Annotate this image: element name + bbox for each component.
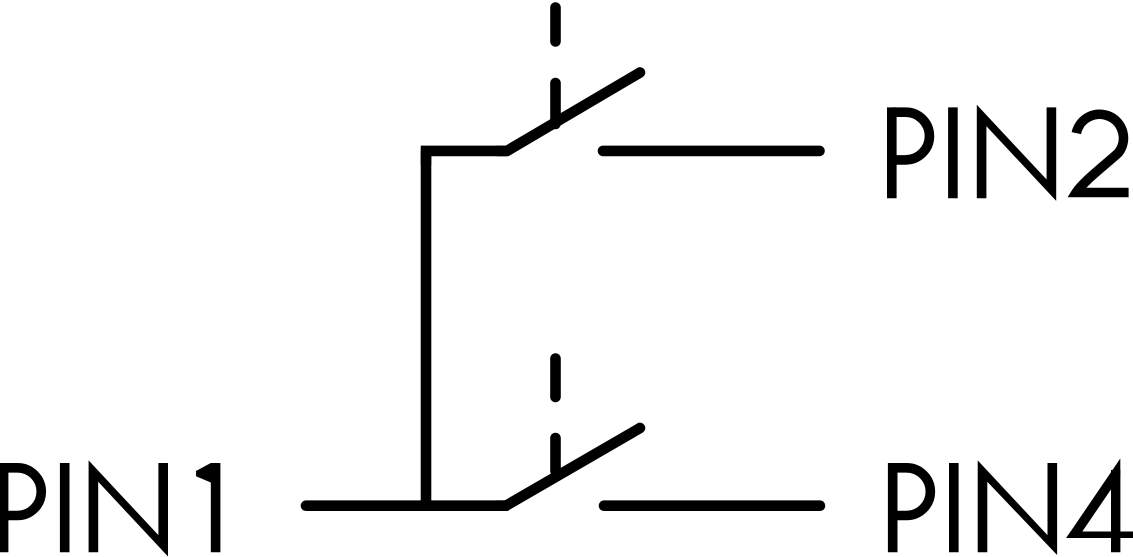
wire: pole B common corner segment <box>426 151 507 165</box>
wire: PIN4 horizontal lead <box>604 500 820 511</box>
switch pole B blade (common to PIN2 throw, shown open) <box>498 73 640 151</box>
mechanical linkage dashed line, upper pole, dash 2 <box>550 83 561 124</box>
switch pole A blade (PIN1 common to PIN4 throw, shown open) <box>497 428 640 506</box>
wire: PIN2 horizontal lead <box>603 146 820 157</box>
mechanical linkage dashed line, lower pole, dash 1 <box>550 359 561 398</box>
wire: PIN1 horizontal lead <box>306 500 506 511</box>
wire: vertical riser from PIN1 net up to pole B common <box>421 151 432 506</box>
pin label PIN4 <box>888 459 1133 556</box>
pin label PIN2 <box>887 105 1129 201</box>
pin label PIN1 <box>0 460 220 556</box>
mechanical linkage dashed line, lower pole, dash 2 <box>550 438 561 471</box>
mechanical linkage dashed line, upper pole, dash 1 <box>550 8 561 42</box>
